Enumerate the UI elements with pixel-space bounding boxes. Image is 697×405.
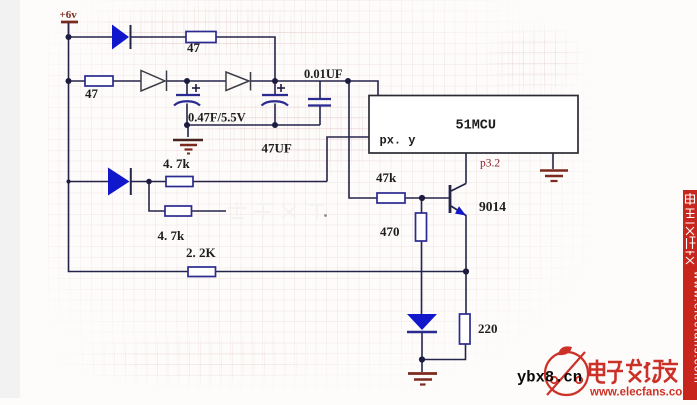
svg-text:www.elecfans.com: www.elecfans.com — [589, 387, 692, 399]
svg-text:www.elecfans.com: www.elecfans.com — [692, 270, 697, 384]
svg-text:ybx8.cn: ybx8.cn — [517, 369, 582, 387]
